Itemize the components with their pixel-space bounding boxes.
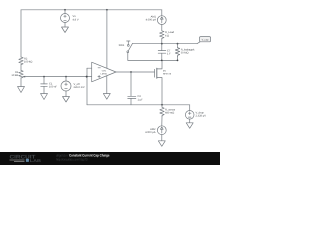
op-amp OA1 (92, 62, 116, 82)
node junction op-amp V+ (106, 9, 108, 11)
wire V_cap rail (132, 43, 197, 45)
svg-text:4 Ω: 4 Ω (165, 34, 169, 37)
transistor M1 (155, 60, 163, 104)
wire V_off stem (65, 77, 67, 81)
footer logo lines (10, 160, 25, 161)
footer logo LAB box (26, 159, 29, 162)
ground under R1 (18, 87, 25, 93)
svg-text:480 mΩ: 480 mΩ (165, 112, 174, 115)
wire tap to op-amp + input (23, 76, 92, 78)
wire op-amp V- to ground (106, 76, 108, 94)
wire C2 to rail (130, 98, 132, 104)
resistor R_sense (160, 105, 164, 117)
wire top rail (21, 9, 162, 11)
node junction C7 bottom (161, 60, 163, 62)
ground under op-amp (103, 94, 110, 100)
ground under V_off (63, 97, 70, 103)
capacitor C1 (41, 84, 48, 86)
wire R1 bottom to ground (20, 78, 22, 87)
footer bar (0, 152, 220, 165)
resistor R2 (19, 57, 23, 65)
ammeter AM1 (157, 16, 166, 25)
wire C2 drop (130, 72, 132, 96)
wire R_sense to AM2 (161, 117, 163, 126)
wire V_off to ground (65, 91, 67, 97)
svg-text:V_cap: V_cap (202, 38, 209, 41)
wire AM2 to ground (161, 135, 163, 141)
svg-text:1 μF: 1 μF (138, 98, 144, 101)
op-amp plus input glyph (98, 75, 100, 77)
source V_drop (185, 111, 194, 120)
resistor R_Load (160, 31, 164, 39)
svg-text:226.0 mV: 226.0 mV (74, 86, 85, 89)
capacitor C7 (158, 44, 166, 61)
switch SW1 (127, 41, 133, 60)
node junction C1 (43, 76, 45, 78)
node crossover blob (86, 76, 88, 78)
node junction source/R_sense (161, 104, 163, 106)
wire left drop to R2 (20, 10, 22, 57)
ground under V1 (62, 27, 69, 33)
ground under C1 (41, 94, 48, 100)
ammeter AM2 (157, 126, 166, 135)
svg-text:4.000 μA: 4.000 μA (145, 131, 156, 134)
wire V1 stem (64, 10, 66, 14)
capacitor C2 (128, 96, 136, 98)
ground under AM2 (158, 141, 165, 147)
resistor R1 (pot) (19, 70, 23, 78)
node junction R_Load/C7 (161, 43, 163, 45)
resistor R_leakagek (175, 44, 179, 61)
wire AM1 to R_Load (161, 25, 163, 31)
node junction R_leakage top (177, 43, 179, 45)
wire feedback riser (86, 68, 88, 105)
wire C1 to ground (43, 86, 45, 93)
wire minus input (87, 67, 92, 69)
svg-text:100 kΩ: 100 kΩ (24, 61, 32, 64)
wire op-amp V+ riser (106, 10, 108, 69)
wire R2 to R1 (20, 65, 22, 71)
svg-text:uligonzo / Constant Current Ca: uligonzo / Constant Current Cap Charge (56, 153, 110, 157)
wire V_drop drop (189, 105, 191, 111)
voltage source V1 (61, 14, 70, 23)
svg-text:1 F: 1 F (167, 53, 171, 56)
svg-text:10 kΩ: 10 kΩ (11, 74, 18, 77)
svg-text:50 MΩ: 50 MΩ (181, 52, 189, 55)
node junction R_leakage bottom (177, 60, 179, 62)
source V_off (61, 81, 71, 91)
svg-text:LAB: LAB (30, 158, 41, 163)
svg-text:4.000 μA: 4.000 μA (146, 19, 157, 22)
wire bottom-right rail (128, 59, 178, 61)
svg-text:LM741: LM741 (101, 72, 108, 75)
svg-text:OA1: OA1 (102, 70, 107, 73)
wire op-amp output to gate (116, 71, 155, 73)
node junction V_off (65, 76, 67, 78)
node flag V_cap (197, 37, 211, 44)
wire AM1 corner (161, 10, 163, 16)
svg-text:M1: M1 (163, 70, 167, 73)
svg-text:4.8 V: 4.8 V (73, 18, 79, 21)
svg-text:2.328 μV: 2.328 μV (196, 115, 207, 118)
svg-text:100 nF: 100 nF (49, 86, 57, 89)
wire feedback rail (87, 104, 190, 106)
ground under V_drop (186, 123, 193, 129)
wire V1 to ground (64, 23, 66, 28)
op-amp minus input glyph (98, 67, 100, 69)
node junction V1 (64, 9, 66, 11)
wire C1 stem (43, 77, 45, 84)
node tap wiper arrow (23, 76, 25, 78)
svg-text:http://circuitlab.com/7dqz73: http://circuitlab.com/7dqz73 (56, 158, 88, 162)
wire R_Load to V_cap rail (161, 38, 163, 43)
svg-text:NFET25: NFET25 (163, 72, 172, 75)
wire V_drop to ground (189, 119, 191, 123)
node junction C2 (130, 71, 132, 73)
svg-text:SW1: SW1 (119, 44, 125, 47)
